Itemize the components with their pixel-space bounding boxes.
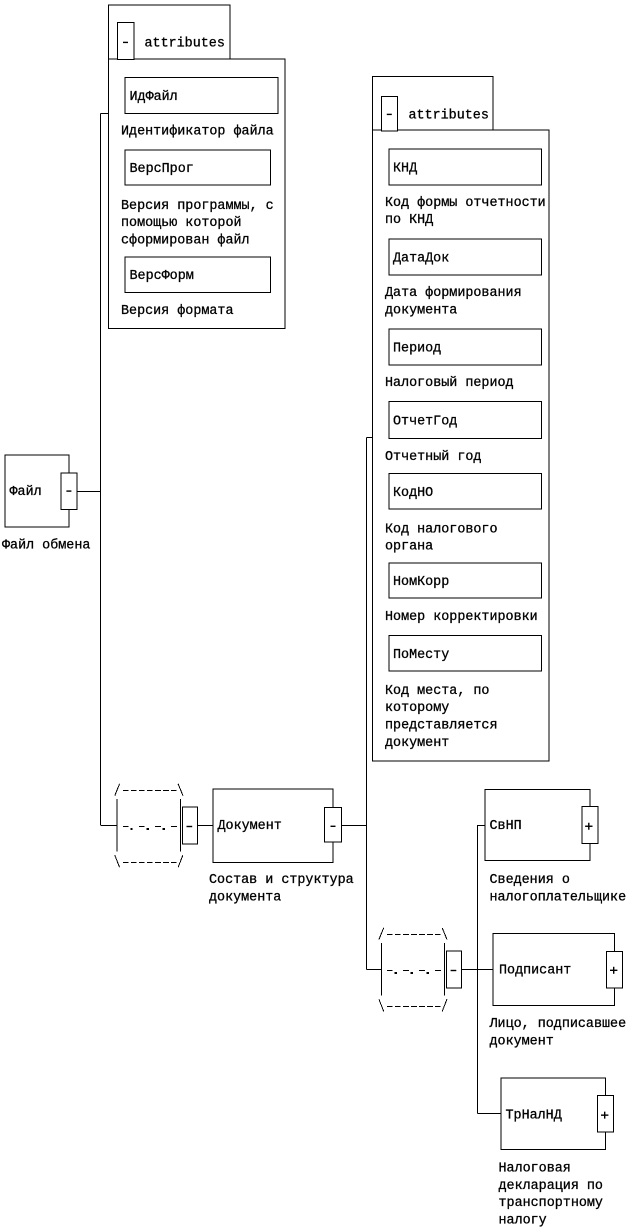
svg-text:документа: документа (385, 303, 457, 318)
svg-text:КНД: КНД (393, 162, 417, 177)
svg-text:Налоговый период: Налоговый период (385, 376, 514, 391)
svg-text:Сведения о: Сведения о (490, 873, 570, 888)
svg-text:Лицо, подписавшее: Лицо, подписавшее (489, 1017, 627, 1032)
svg-text:Версия программы, с: Версия программы, с (121, 199, 274, 214)
svg-text:документ: документ (490, 1035, 554, 1050)
svg-text:Состав и структура: Состав и структура (209, 873, 354, 888)
svg-text:КодНО: КодНО (393, 486, 433, 501)
svg-text:НомКорр: НомКорр (393, 575, 449, 590)
svg-text:Документ: Документ (218, 819, 282, 834)
svg-text:налогу: налогу (499, 1214, 547, 1229)
svg-text:attributes: attributes (409, 109, 489, 124)
svg-text:Код места, по: Код места, по (385, 684, 489, 699)
svg-text:Номер корректировки: Номер корректировки (385, 610, 538, 625)
svg-text:СвНП: СвНП (490, 819, 522, 834)
svg-text:Код налогового: Код налогового (385, 522, 498, 537)
svg-text:ДатаДок: ДатаДок (393, 252, 449, 267)
svg-text:Налоговая: Налоговая (499, 1162, 571, 1177)
svg-text:Отчетный год: Отчетный год (385, 450, 481, 465)
svg-text:транспортному: транспортному (499, 1196, 603, 1211)
svg-text:Файл обмена: Файл обмена (2, 539, 90, 554)
svg-text:налогоплательщике: налогоплательщике (490, 891, 627, 906)
svg-text:ИдФайл: ИдФайл (130, 90, 178, 105)
svg-text:органа: органа (385, 540, 433, 555)
svg-text:документа: документа (209, 890, 281, 905)
svg-text:ВерсПрог: ВерсПрог (130, 162, 194, 177)
svg-text:помощью которой: помощью которой (121, 216, 242, 231)
svg-text:attributes: attributes (145, 37, 225, 52)
svg-text:сформирован файл: сформирован файл (121, 234, 250, 249)
svg-text:Файл: Файл (10, 485, 42, 500)
svg-text:ВерсФорм: ВерсФорм (130, 269, 194, 284)
svg-text:по КНД: по КНД (385, 213, 433, 228)
svg-text:Дата формирования: Дата формирования (385, 286, 522, 301)
svg-text:ТрНалНД: ТрНалНД (506, 1108, 562, 1123)
svg-text:Версия формата: Версия формата (121, 304, 234, 319)
svg-text:представляется: представляется (385, 719, 498, 734)
svg-text:ОтчетГод: ОтчетГод (393, 415, 457, 430)
svg-text:декларация по: декларация по (499, 1179, 603, 1194)
svg-text:ПоМесту: ПоМесту (393, 648, 449, 663)
svg-text:Код формы отчетности: Код формы отчетности (385, 196, 546, 211)
svg-text:которому: которому (385, 701, 449, 716)
svg-text:Идентификатор файла: Идентификатор файла (121, 124, 274, 139)
svg-text:документ: документ (385, 736, 449, 751)
svg-text:Подписант: Подписант (499, 963, 571, 978)
svg-text:Период: Период (393, 342, 441, 357)
